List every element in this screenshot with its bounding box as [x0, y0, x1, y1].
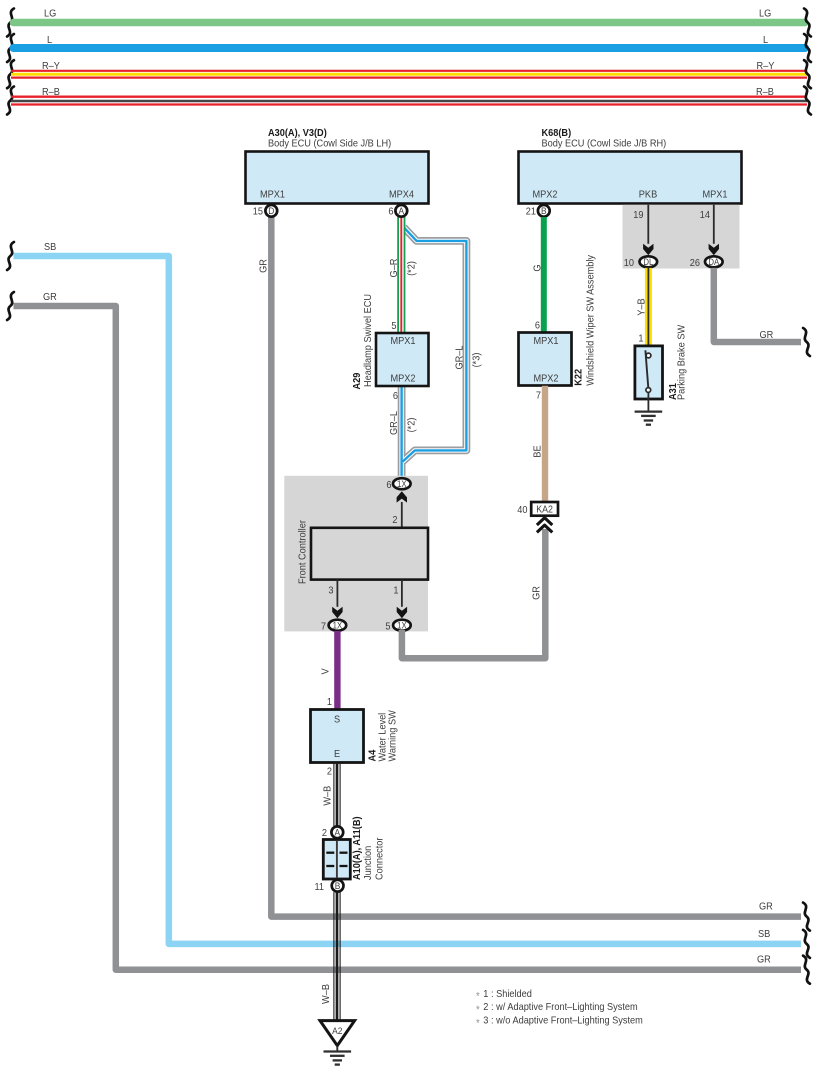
bus wire R-Y — [7, 60, 811, 88]
bus wire R-B — [7, 87, 811, 115]
wire GR from oval 5 to KA2 — [402, 529, 545, 658]
wire GR (left to bottom right) — [7, 292, 810, 984]
wire V from oval 7 to water level warning SW — [320, 631, 337, 710]
svg-text:Warning SW: Warning SW — [387, 710, 399, 762]
body ECU K68 label — [542, 128, 667, 150]
svg-text:14: 14 — [700, 210, 711, 222]
svg-text:MPX2: MPX2 — [532, 189, 557, 201]
ground below parking brake SW — [635, 412, 663, 425]
front controller shaded area — [284, 476, 428, 632]
svg-text:R–B: R–B — [756, 87, 774, 99]
svg-text:G: G — [532, 264, 544, 271]
svg-text:21: 21 — [526, 206, 536, 218]
svg-text:*: * — [476, 991, 480, 1003]
svg-text:1X: 1X — [397, 478, 407, 489]
svg-text:A2: A2 — [332, 1026, 342, 1037]
wire GR from DA to right edge — [714, 268, 810, 356]
svg-text:MPX1: MPX1 — [533, 336, 558, 348]
ground point A2 — [320, 1021, 355, 1052]
svg-text:Body ECU (Cowl Side J/B RH): Body ECU (Cowl Side J/B RH) — [542, 138, 667, 150]
legend note 1 — [476, 988, 532, 1002]
svg-text:BE: BE — [532, 445, 544, 458]
svg-text:D: D — [268, 206, 275, 217]
svg-text:GR: GR — [43, 292, 57, 304]
svg-text:MPX1: MPX1 — [702, 189, 727, 201]
svg-text:1: 1 — [327, 696, 332, 708]
svg-text:LG: LG — [759, 8, 771, 20]
svg-text:Body ECU (Cowl Side J/B LH): Body ECU (Cowl Side J/B LH) — [268, 138, 391, 150]
parking brake SW A31 — [635, 324, 688, 411]
svg-text:15: 15 — [253, 206, 264, 218]
svg-text:6: 6 — [388, 206, 394, 218]
wire W-B from A4 to junction connector — [322, 763, 340, 827]
front controller pin 1 wire — [393, 580, 407, 619]
svg-text:B: B — [335, 881, 341, 892]
connector oval 1X pin 7 — [321, 620, 346, 633]
legend note 2 — [476, 1002, 638, 1016]
svg-text:Y–B: Y–B — [636, 298, 648, 316]
svg-text:LG: LG — [44, 8, 56, 20]
water level warning SW A4 — [311, 710, 399, 778]
windshield wiper SW assembly K22 — [519, 255, 597, 386]
svg-text:*: * — [476, 1005, 480, 1017]
wire G-R from body ECU pin A to headlamp swivel ECU pin 5 — [388, 217, 418, 333]
wire SB (left to bottom right) — [7, 242, 810, 958]
svg-text:6: 6 — [393, 391, 399, 403]
svg-text:5: 5 — [385, 621, 391, 633]
junction connector pin 2 circle A — [322, 826, 343, 839]
junction connector A10/A11 — [323, 816, 385, 880]
svg-text:GR: GR — [258, 259, 270, 273]
svg-text:MPX2: MPX2 — [390, 373, 415, 385]
svg-text:DL: DL — [643, 257, 653, 268]
svg-text:A: A — [398, 206, 404, 217]
svg-text:GR–L: GR–L — [389, 410, 401, 435]
svg-text:A10(A), A11(B): A10(A), A11(B) — [352, 816, 364, 880]
svg-text:DA: DA — [708, 257, 719, 268]
svg-text:GR: GR — [757, 954, 771, 966]
svg-text:Front Controller: Front Controller — [297, 519, 309, 584]
bus wire LG — [7, 8, 811, 36]
svg-text:SB: SB — [758, 929, 771, 941]
svg-text:B: B — [541, 206, 547, 217]
svg-text:L: L — [763, 35, 769, 47]
svg-text:MPX1: MPX1 — [260, 189, 285, 201]
body ECU A30 label — [268, 128, 391, 150]
svg-text:GR: GR — [760, 330, 774, 342]
wire PKB pin 19 to DL — [633, 205, 653, 255]
shielded cable GR-L (*3) and (*2) to front controller — [389, 227, 483, 477]
svg-text:Junction: Junction — [363, 846, 375, 880]
svg-text:E: E — [334, 749, 341, 761]
svg-text:S: S — [334, 714, 341, 726]
svg-text:7: 7 — [536, 390, 541, 402]
svg-text:L: L — [47, 35, 53, 47]
legend note 3 — [476, 1015, 643, 1029]
svg-text:11: 11 — [314, 882, 324, 894]
connector oval DA pin 26 — [690, 256, 723, 269]
arrow into front controller — [392, 491, 407, 528]
svg-text:3 : w/o Adaptive Front–Lightin: 3 : w/o Adaptive Front–Lighting System — [483, 1015, 643, 1027]
svg-text:MPX1: MPX1 — [390, 336, 415, 348]
connector oval DL pin 10 — [624, 256, 657, 269]
svg-text:G–R: G–R — [388, 259, 400, 278]
junction block shaded area — [623, 205, 740, 269]
svg-text:7: 7 — [321, 621, 326, 633]
pin 21 connector B — [526, 205, 550, 218]
svg-text:5: 5 — [391, 321, 397, 333]
svg-text:Headlamp Swivel ECU: Headlamp Swivel ECU — [363, 294, 375, 387]
svg-text:26: 26 — [690, 257, 701, 269]
wire W-B from junction connector to ground A2 — [321, 892, 341, 1020]
svg-text:W–B: W–B — [321, 984, 333, 1004]
svg-text:R–Y: R–Y — [757, 60, 775, 72]
pin 6 connector A — [388, 205, 407, 218]
svg-text:KA2: KA2 — [536, 504, 553, 516]
svg-text:10: 10 — [624, 257, 635, 269]
connector oval 1X pin 6 — [386, 478, 410, 491]
svg-text:SB: SB — [44, 242, 57, 254]
svg-text:*: * — [476, 1018, 480, 1030]
svg-text:1X: 1X — [333, 620, 343, 631]
svg-text:19: 19 — [633, 210, 643, 222]
body ECU A30 box — [246, 152, 429, 204]
connector oval 1X pin 5 — [385, 620, 410, 633]
svg-text:3: 3 — [328, 585, 334, 597]
svg-text:R–Y: R–Y — [42, 60, 60, 72]
svg-text:(*2): (*2) — [406, 418, 418, 433]
front controller pin 3 wire — [328, 580, 342, 619]
svg-text:PKB: PKB — [639, 189, 658, 201]
svg-text:MPX2: MPX2 — [533, 373, 558, 385]
svg-text:GR: GR — [531, 586, 543, 600]
connector KA2 pin 40 — [517, 502, 558, 532]
svg-text:2: 2 — [392, 515, 397, 527]
svg-text:A: A — [334, 827, 340, 838]
svg-text:Parking Brake SW: Parking Brake SW — [676, 324, 688, 400]
svg-text:1 : Shielded: 1 : Shielded — [483, 988, 532, 1000]
wire Y-B from DL to parking brake SW — [636, 268, 648, 354]
svg-text:(*2): (*2) — [406, 261, 418, 276]
svg-text:Windshield Wiper SW Assembly: Windshield Wiper SW Assembly — [585, 255, 597, 386]
svg-text:6: 6 — [535, 320, 541, 332]
pin 15 connector D — [253, 205, 277, 218]
svg-text:1X: 1X — [397, 620, 407, 631]
svg-text:(*3): (*3) — [471, 353, 483, 368]
svg-text:2: 2 — [322, 828, 327, 840]
svg-text:R–B: R–B — [42, 87, 60, 99]
svg-text:2: 2 — [327, 766, 332, 778]
svg-text:MPX4: MPX4 — [389, 189, 415, 201]
junction connector pin 11 circle B — [314, 880, 343, 893]
svg-text:W–B: W–B — [322, 785, 334, 805]
svg-text:40: 40 — [517, 505, 528, 517]
front controller inner box — [297, 519, 428, 584]
svg-text:K22: K22 — [573, 368, 585, 385]
svg-text:GR–L: GR–L — [454, 345, 466, 370]
svg-text:1: 1 — [393, 585, 398, 597]
headlamp swivel ECU A29 — [352, 294, 429, 402]
svg-text:A29: A29 — [352, 372, 364, 389]
bus wire L — [7, 34, 811, 62]
wire MPX1 pin 14 to DA — [700, 205, 719, 255]
svg-text:6: 6 — [386, 480, 392, 492]
svg-text:2 : w/ Adaptive Front–Lighting: 2 : w/ Adaptive Front–Lighting System — [483, 1002, 637, 1014]
svg-text:V: V — [320, 668, 332, 675]
wire GR from body ECU pin D to bottom right — [258, 217, 810, 931]
body ECU K68 box — [519, 152, 742, 204]
svg-text:GR: GR — [759, 901, 773, 913]
wire BE from K22 pin 7 to KA2 — [532, 386, 545, 502]
svg-text:Connector: Connector — [374, 837, 386, 880]
wire G from pin B to wiper SW — [532, 217, 544, 333]
ground symbol A2 — [324, 1052, 352, 1065]
svg-text:1: 1 — [638, 333, 643, 345]
